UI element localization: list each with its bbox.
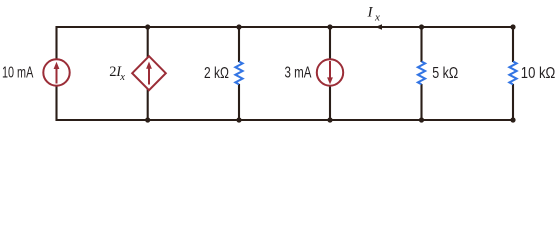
junction dot: top of 2 kohm branch xyxy=(236,24,241,29)
current direction arrow Ix on top wire xyxy=(375,24,382,30)
svg-text:10 kΩ: 10 kΩ xyxy=(521,65,556,82)
svg-text:5 kΩ: 5 kΩ xyxy=(432,65,458,82)
junction dot: bottom of dependent source branch xyxy=(145,117,150,122)
wire: dependent source branch xyxy=(147,26,149,121)
junction dot: top of dependent source branch xyxy=(145,24,150,29)
wire: 10 kohm branch top segment xyxy=(512,26,514,62)
current source 3 mA xyxy=(317,59,343,85)
svg-text:3 mA: 3 mA xyxy=(285,65,312,82)
wire: left branch (10 mA column) xyxy=(55,26,57,121)
junction dot: bottom right corner xyxy=(510,117,515,122)
current source 10 mA xyxy=(43,59,69,85)
junction dot: top of 5 kohm branch xyxy=(419,24,424,29)
svg-text:x: x xyxy=(119,72,125,83)
svg-text:x: x xyxy=(374,11,380,23)
resistor 5 kohm xyxy=(418,62,425,85)
top wire xyxy=(57,26,514,28)
junction dot: bottom of 5 kohm branch xyxy=(419,117,424,122)
svg-text:10 mA: 10 mA xyxy=(2,65,34,82)
junction dot: top right corner xyxy=(510,24,515,29)
wire: 10 kohm branch bottom segment xyxy=(512,84,514,121)
bottom wire xyxy=(57,119,514,121)
svg-text:I: I xyxy=(367,5,374,21)
junction dot: bottom of 3 mA branch xyxy=(327,117,332,122)
wire: 2 kohm branch bottom segment xyxy=(238,84,240,121)
junction dot: bottom of 2 kohm branch xyxy=(236,117,241,122)
wire: 3 mA branch xyxy=(329,26,331,121)
resistor 2 kohm xyxy=(235,62,242,85)
wire: 5 kohm branch top segment xyxy=(420,26,422,62)
wire: 5 kohm branch bottom segment xyxy=(420,84,422,121)
junction dot: top of 3 mA branch xyxy=(327,24,332,29)
wire: 2 kohm branch top segment xyxy=(238,26,240,62)
resistor 10 kohm xyxy=(509,62,516,85)
svg-text:2 kΩ: 2 kΩ xyxy=(204,65,229,82)
dependent current source 2Ix xyxy=(132,56,166,90)
